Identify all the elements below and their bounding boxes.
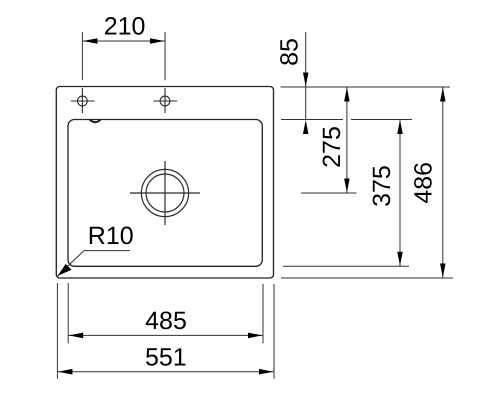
extension line bowl left (bottom) (67, 283, 69, 343)
dimension 85 (rim to bowl top) (275, 32, 308, 134)
overflow notch (90, 120, 101, 122)
svg-text:R10: R10 (88, 222, 134, 250)
faucet hole right (153, 88, 177, 113)
inner bowl outline (68, 120, 262, 267)
dimension 486 (overall depth) (410, 87, 446, 278)
dimension 210 (top, between faucet holes) (82, 13, 165, 81)
svg-text:486: 486 (410, 162, 438, 204)
radius callout R10 (corner radius leader) (58, 222, 134, 276)
extension line outer right (bottom) (273, 284, 275, 379)
extension line drain center (right side) (301, 192, 357, 194)
svg-text:210: 210 (104, 13, 146, 41)
extension line bowl right (bottom) (262, 284, 264, 343)
svg-text:85: 85 (275, 38, 303, 66)
drain outlet (130, 161, 200, 225)
dimension 551 (overall width) (57, 344, 274, 375)
extension line outer top (right side) (281, 86, 451, 88)
extension line outer left (bottom) (56, 283, 58, 379)
svg-text:275: 275 (318, 126, 346, 168)
extension line bowl top (right side, right segment) (351, 119, 412, 121)
dimension 485 (bowl width) (68, 307, 263, 338)
dimension 275 (rim to drain center) (318, 87, 350, 193)
svg-text:551: 551 (145, 344, 187, 372)
dimension 375 (bowl depth) (368, 120, 403, 267)
svg-text:375: 375 (368, 165, 396, 207)
extension line bowl top (right side, left segment) (281, 119, 343, 121)
extension line bowl bottom (right side) (283, 265, 409, 267)
svg-text:485: 485 (145, 307, 187, 335)
outer sink outline (56, 87, 273, 279)
faucet hole left (71, 88, 95, 113)
extension line outer bottom (right side) (281, 277, 453, 279)
